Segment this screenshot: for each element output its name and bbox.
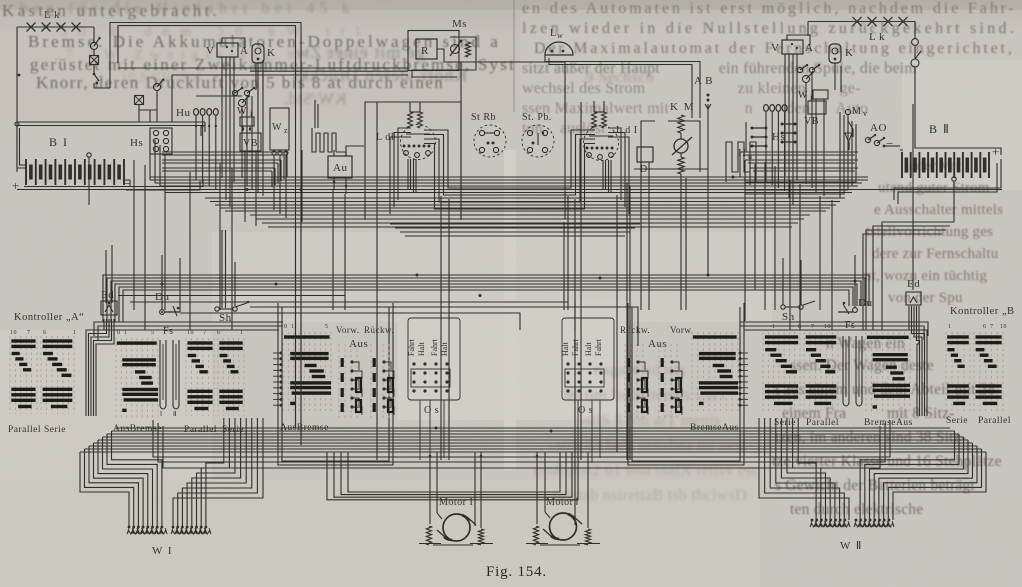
contacts Ld II (403, 145, 406, 148)
controller Vorw panel left (338, 344, 340, 418)
wire (437, 49, 466, 62)
resistor Fs left (160, 340, 166, 409)
wire Ed-Du-Sh links (118, 295, 345, 297)
controller B panel 1 (762, 332, 764, 411)
wire bus band C (250, 214, 810, 216)
lamp Lw dome (545, 42, 573, 55)
wire Wz legs (273, 155, 275, 210)
wire Lk right vertical (914, 22, 916, 39)
wire bus band A (150, 176, 868, 178)
wire Lk horizontal (17, 26, 94, 28)
switch Du right (853, 308, 858, 313)
wire K legs (255, 63, 257, 90)
wire fan to W II (893, 452, 986, 520)
coil pair above Ld I (592, 112, 597, 128)
wire Au legs (333, 178, 335, 190)
rail to top (outer) (110, 23, 301, 446)
wire Lk right horizontal (808, 21, 915, 23)
relay Wi right (813, 90, 828, 99)
switch S1 in Lk chain (90, 42, 97, 49)
wire nested frames center (348, 452, 560, 492)
wire bus band C2 (390, 223, 640, 225)
resistor KM lower (678, 157, 684, 174)
valve Mv (848, 115, 853, 137)
contactor Hs box right (782, 123, 795, 125)
wire rail to Ms b (250, 70, 408, 72)
wire B II minus lead (900, 149, 903, 151)
inductor row Hu (left) (194, 109, 199, 116)
wire bundle Hs right (740, 151, 858, 153)
ghost text bottom-center (bleed-through) (594, 362, 686, 379)
paper background patches (0, 0, 1022, 10)
wire controller feed right (740, 322, 928, 336)
controller Rueckw panel left (370, 344, 372, 418)
enclosure center control box (365, 102, 461, 220)
enclosure mid-left (278, 303, 393, 465)
wire bus band B (205, 197, 845, 199)
resistor motor I left (426, 526, 431, 545)
switch (238, 99, 245, 106)
battery B II center tap (952, 177, 956, 181)
wire to rails (94, 83, 110, 88)
relay Wi (left) (240, 117, 254, 126)
wire bus band E (116, 427, 950, 429)
wire D legs (640, 162, 642, 186)
enclosure mid-right (628, 303, 744, 465)
wire Sh riser (221, 230, 223, 308)
switch Ed right (906, 292, 921, 305)
inductor row Hu coils right (764, 105, 769, 112)
relay box VB right (808, 101, 826, 114)
rail to top (inner) (118, 26, 296, 428)
breaker contacts Lk left (27, 23, 36, 32)
resistor box Wz (270, 108, 289, 150)
battery B II plates (901, 152, 903, 178)
wire AB down (707, 104, 709, 169)
wire left vertical from Lk (16, 27, 18, 172)
cutout K right (829, 44, 841, 63)
wire (884, 145, 900, 147)
wire bundle from V/A cluster (221, 57, 223, 178)
interruptor contact Ms (451, 45, 460, 54)
motor M2 (550, 513, 577, 540)
resistor motor I right (478, 529, 483, 545)
wire Ed riser (105, 250, 107, 303)
switch blade (94, 74, 99, 81)
wire band left hooks (149, 132, 151, 180)
switch pair right (797, 67, 802, 72)
wire Ed fan left (86, 319, 104, 416)
battery B I plates (25, 159, 27, 185)
junction dots (300, 188, 303, 191)
wire motor II leads (536, 452, 538, 524)
switch Ld II (401, 125, 436, 160)
enclosure Ms (408, 31, 459, 71)
coil Ms (465, 42, 470, 57)
enclosure KM (641, 121, 700, 172)
battery B I center tap (87, 153, 91, 157)
coil pair above Ld II (408, 112, 413, 128)
wire VB legs (244, 151, 246, 222)
wire Du riser (161, 255, 163, 310)
relay box VB (left) (240, 133, 261, 151)
wire long verticals (300, 222, 302, 445)
controller B panel 2 (803, 332, 805, 411)
controller A panel 1 (9, 336, 11, 414)
controller B panel 3 (945, 332, 947, 411)
controller Rueckw panel right (624, 344, 626, 418)
wire motor I leads (429, 452, 431, 524)
switch Sh left (215, 307, 219, 311)
wire motor I base (419, 543, 441, 545)
ghost mirrored overlay top-left (295, 42, 424, 62)
resistor bank W II (855, 519, 858, 522)
switch in Lk right (911, 59, 919, 67)
wire long bottom loops (153, 420, 890, 457)
selector Os right (562, 318, 614, 400)
motor M1 (443, 514, 470, 541)
switch Ed left (101, 301, 117, 315)
wire double rail upper (17, 121, 205, 123)
switch Ld I (584, 126, 619, 161)
socket St.Pb (522, 125, 554, 157)
wire (138, 105, 140, 122)
resistor motor II left (533, 526, 538, 545)
wire motor II base (526, 543, 548, 545)
switch Du left (160, 310, 165, 315)
resistor Fs right (843, 336, 849, 406)
cutout K (left) (252, 44, 264, 63)
fuse above Hs (135, 96, 144, 105)
resistor bank W I (128, 526, 131, 529)
voltmeter-ammeter box V/A (217, 43, 238, 57)
wire meander left of Au (312, 128, 346, 156)
switch above Hs (153, 83, 160, 90)
wire Lw leads (545, 55, 700, 118)
connector AB (707, 94, 710, 97)
controller Vorw panel right (658, 344, 660, 418)
controller AusBremse panel left (115, 338, 117, 418)
controller AusBremse panel mid-left (282, 332, 284, 411)
controller A panel 3 (185, 338, 187, 416)
wire controller feed left (94, 322, 283, 336)
breaker contacts Lk right (853, 17, 862, 26)
fuse F1 in Lk chain (90, 56, 99, 65)
wire (93, 50, 95, 55)
wire risers right (912, 250, 914, 290)
wire bundle from Hu coils right (765, 112, 767, 182)
wire Ld II legs and hooks (407, 159, 409, 190)
contactor Hu box right (752, 127, 766, 129)
voltmeter-ammeter box V/A right (782, 40, 803, 54)
switch Sh right (781, 305, 785, 309)
switch right (802, 75, 809, 82)
wire stub (117, 27, 119, 63)
controller BremseAus panel right (865, 332, 867, 415)
wire meander right (726, 142, 756, 182)
selector Os left (408, 318, 460, 400)
scan grain overlay (0, 0, 1, 1)
motor contact KM (674, 139, 688, 153)
lamp in Lk right (912, 39, 919, 46)
relay Au (328, 156, 352, 178)
wire Au top (334, 146, 364, 156)
wire (93, 27, 95, 42)
enclosure Ms inner (412, 37, 476, 77)
resistor motor II right (585, 529, 590, 545)
controller A panel 4 (217, 338, 219, 416)
wire B II return (894, 159, 1001, 200)
wire rail to Ms a (172, 74, 408, 76)
wire bus band D (103, 275, 869, 322)
wire (680, 133, 682, 139)
wire Ed fan right (909, 306, 927, 416)
wire battery return (24, 180, 130, 187)
wire bundle right cluster (784, 54, 786, 176)
relay box R (416, 39, 437, 59)
controller A panel 2 (40, 336, 42, 414)
wire (171, 75, 173, 122)
controller BremseAus panel mid-right (691, 332, 693, 411)
wire (196, 95, 242, 97)
relay D (637, 147, 653, 162)
wire nested corners right cluster (745, 112, 840, 198)
switch AO (865, 137, 870, 142)
switch pair (232, 90, 237, 95)
wire fan to W I (80, 452, 129, 527)
column divider rule (513, 0, 515, 112)
wire bundle Hs to bus (162, 151, 287, 153)
resistor KM upper (678, 115, 684, 133)
wire Ld I legs and hooks (602, 160, 604, 190)
contacts Ld I (586, 147, 589, 150)
socket St.Rb (474, 125, 506, 157)
contactor Hs box (150, 128, 172, 154)
scattered ghost words (283, 89, 346, 108)
wire rail corner down (204, 122, 206, 132)
controller B panel 4 (973, 332, 975, 411)
wire bundle from Hu coils (195, 116, 197, 180)
wire rail to Ms c (118, 67, 408, 69)
wire (807, 22, 809, 37)
